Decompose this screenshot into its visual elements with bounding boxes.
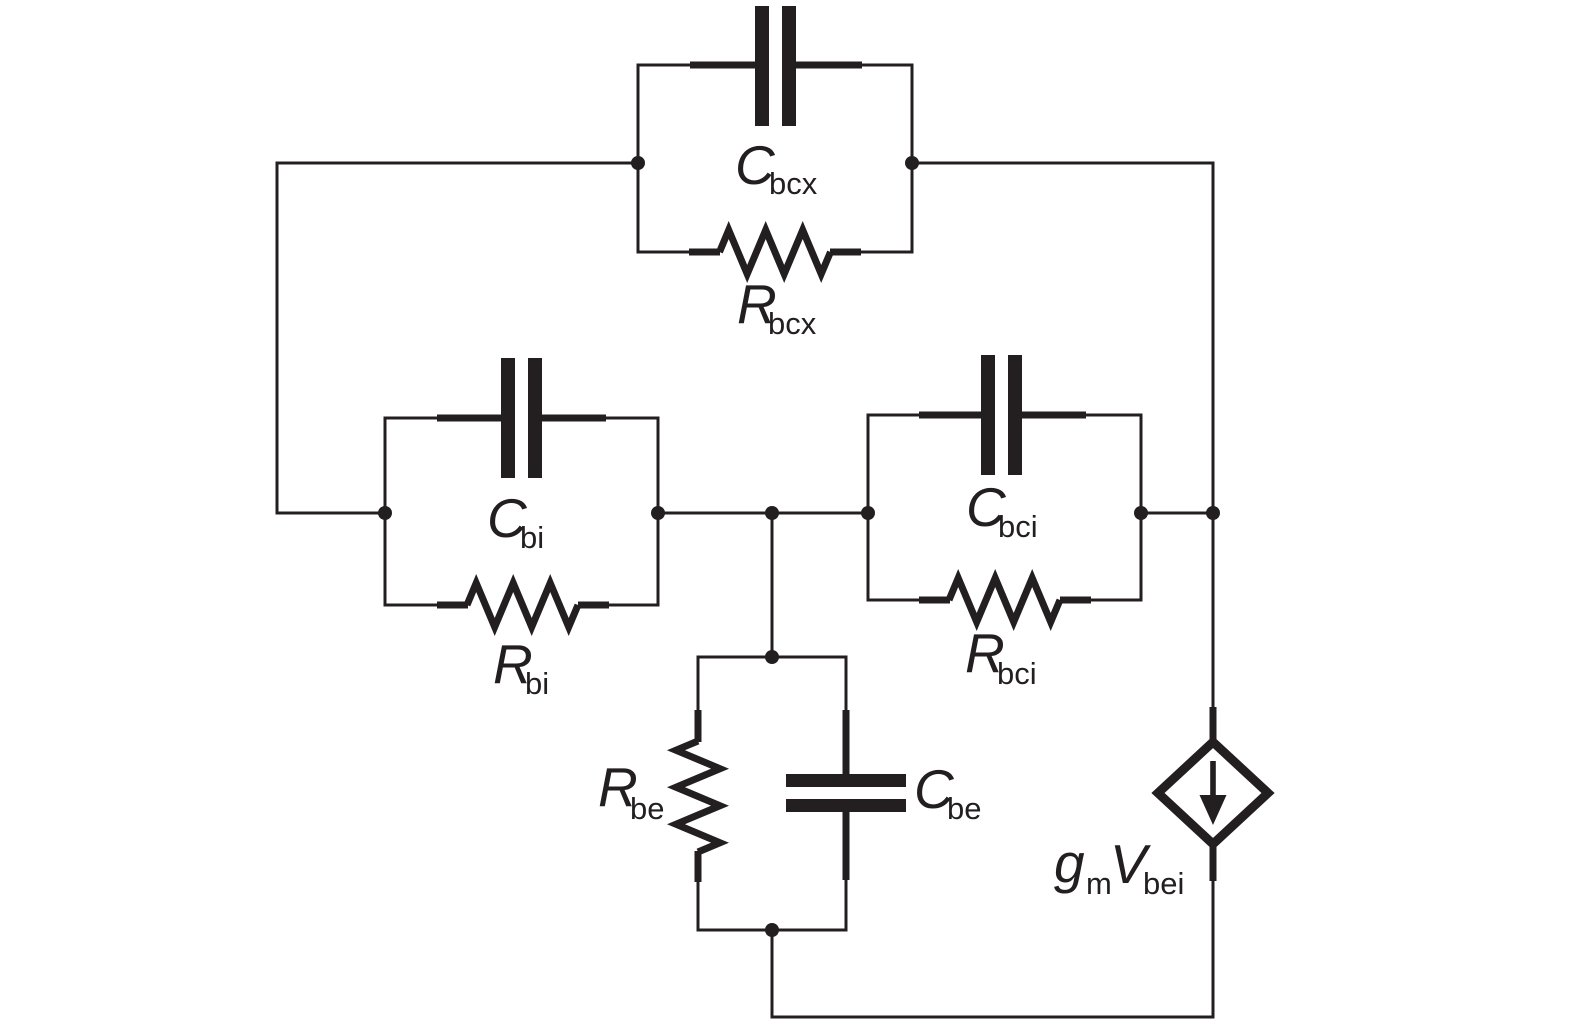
svg-text:bci: bci [997, 656, 1037, 691]
capacitor C_bcx lead left [690, 62, 756, 69]
current source arrow stem [1210, 761, 1216, 797]
capacitor C_bi lead right [541, 415, 606, 422]
capacitor C_bcx plate right [782, 6, 796, 126]
resistor R_be lead bottom [695, 851, 702, 882]
resistor R_bcx zigzag [720, 230, 831, 274]
capacitor C_bci lead left [919, 412, 982, 419]
node dot Cbci right [1134, 506, 1148, 520]
wire Rbe/Cbe box top with side stubs [698, 657, 846, 714]
node dot right rail [1206, 506, 1220, 520]
current source arrow head [1200, 795, 1227, 825]
svg-text:m: m [1086, 866, 1112, 901]
capacitor C_bcx plate left [755, 6, 769, 126]
capacitor C_be plate bottom [786, 799, 906, 812]
svg-text:bci: bci [998, 509, 1038, 544]
svg-text:bcx: bcx [768, 306, 817, 341]
resistor R_bi zigzag [467, 583, 578, 627]
wire Rbe/Cbe box bottom with side stubs [698, 878, 846, 930]
svg-text:bi: bi [520, 520, 544, 555]
capacitor C_be plate top [786, 774, 906, 787]
wire Cbci box left side [868, 415, 927, 600]
svg-text:bei: bei [1143, 866, 1184, 901]
wire bottom return path [772, 881, 1213, 1017]
capacitor C_bci lead right [1022, 412, 1086, 419]
wire center vertical to Rbe/Cbe block [771, 513, 774, 657]
wire top block left side [638, 65, 702, 252]
resistor R_bci zigzag [949, 578, 1060, 622]
resistor R_bcx lead right [830, 249, 861, 256]
capacitor C_bci plate left [981, 355, 995, 475]
wire top-right link and right rail down to current source [912, 163, 1213, 707]
resistor R_be zigzag [676, 741, 720, 852]
capacitor C_bi plate left [501, 358, 515, 478]
current source lead bottom [1210, 845, 1217, 881]
wire Cbci to right rail [1141, 512, 1213, 515]
node dot Rbe/Cbe top [765, 650, 779, 664]
resistor R_bi lead right [578, 602, 609, 609]
node dot center [765, 506, 779, 520]
capacitor C_bi plate right [528, 358, 542, 478]
wire left link from node B down to Cbi block [277, 163, 638, 513]
resistor R_bci lead left [919, 597, 950, 604]
capacitor C_bcx lead right [795, 62, 862, 69]
svg-text:be: be [630, 791, 664, 826]
wire Cbci box right side [1078, 415, 1141, 600]
svg-text:g: g [1054, 832, 1085, 894]
current source U1 diamond [1158, 742, 1268, 844]
svg-text:bi: bi [525, 666, 549, 701]
capacitor C_bci plate right [1008, 355, 1022, 475]
node dot Cbi right [651, 506, 665, 520]
current source lead top [1210, 707, 1217, 741]
capacitor C_be lead bottom [843, 811, 850, 880]
node dot top-right [905, 156, 919, 170]
capacitor C_bi lead left [437, 415, 502, 422]
resistor R_be lead top [695, 710, 702, 742]
node dot top-left [631, 156, 645, 170]
resistor R_bci lead right [1060, 597, 1091, 604]
svg-text:bcx: bcx [769, 166, 818, 201]
wire top block right side [848, 65, 912, 252]
capacitor C_be lead top [843, 710, 850, 775]
wire middle horizontal node row [658, 512, 868, 515]
svg-text:be: be [947, 791, 981, 826]
resistor R_bi lead left [437, 602, 468, 609]
wire Cbi box right side [598, 418, 658, 605]
resistor R_bcx lead left [689, 249, 720, 256]
node dot Rbe/Cbe bottom [765, 923, 779, 937]
node dot Cbci left [861, 506, 875, 520]
node dot Cbi left [378, 506, 392, 520]
wire Cbi box left side [385, 418, 445, 605]
